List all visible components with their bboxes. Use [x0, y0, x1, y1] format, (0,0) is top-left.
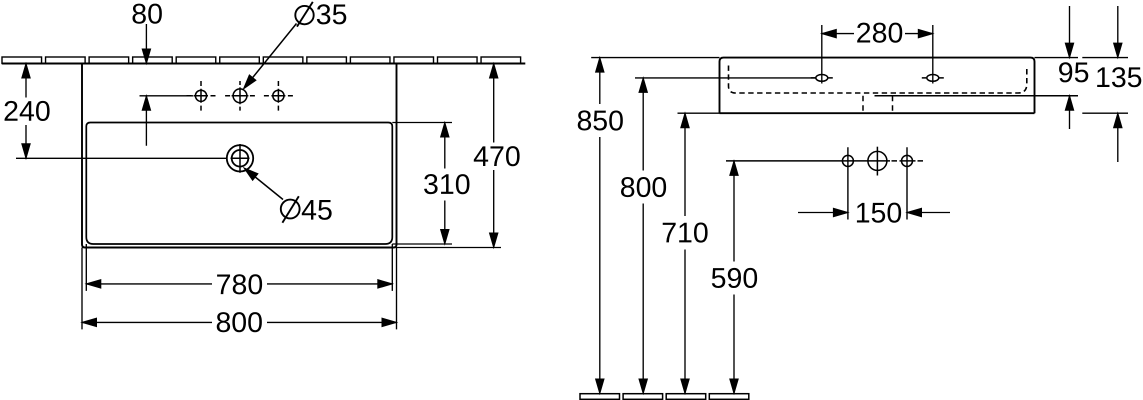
svg-text:470: 470 — [473, 141, 521, 173]
dimension 310 — [392, 123, 452, 245]
dimension 710 — [684, 113, 686, 393]
wall line — [2, 63, 525, 65]
svg-text:240: 240 — [3, 96, 51, 128]
dimension 240 — [16, 64, 227, 159]
leader D35 — [246, 24, 297, 86]
dimension 800 (left view) — [82, 248, 397, 330]
drain hidden lines — [863, 96, 893, 114]
dimension 135 — [1117, 6, 1119, 162]
svg-text:35: 35 — [316, 0, 348, 31]
diameter symbol for 45 — [281, 196, 300, 223]
basin outer rectangle (top view) — [82, 64, 397, 248]
basin bottom edge — [720, 112, 1035, 114]
dimension 780 — [86, 244, 392, 291]
hidden bowl outline (dashed) — [729, 66, 1027, 94]
wall tiles strip — [2, 57, 521, 64]
svg-text:310: 310 — [423, 169, 471, 201]
svg-text:710: 710 — [661, 217, 709, 249]
leader D45 — [247, 170, 283, 199]
inner shelf edge line — [875, 95, 1079, 97]
faucet hole middle D35 — [225, 81, 255, 111]
dimension 850 — [599, 58, 601, 394]
svg-text:135: 135 — [1095, 62, 1143, 94]
top extension line — [591, 57, 1128, 59]
svg-text:150: 150 — [855, 198, 903, 230]
135 right extension — [1082, 112, 1128, 114]
mounting hole left — [811, 75, 833, 82]
svg-text:45: 45 — [301, 195, 333, 227]
svg-text:590: 590 — [711, 263, 759, 295]
svg-text:800: 800 — [620, 172, 668, 204]
left view texts — [3, 0, 521, 339]
faucet holes front view — [842, 147, 912, 176]
dimension 150 — [798, 212, 950, 214]
faucet hole right (small) — [264, 81, 293, 111]
extension lines through small holes — [848, 147, 907, 219]
svg-text:280: 280 — [856, 17, 904, 49]
right view texts — [576, 17, 1142, 295]
dimension 590 — [733, 161, 735, 394]
dimension 80 — [145, 24, 147, 146]
dimension 800 — [642, 78, 644, 394]
faucet hole centre line — [140, 95, 194, 97]
drain hole D45 — [227, 145, 253, 171]
svg-text:95: 95 — [1058, 57, 1090, 89]
faucet hole left (small) — [187, 81, 216, 111]
mounting hole right — [922, 75, 944, 82]
svg-text:780: 780 — [216, 269, 264, 301]
floor tiles — [580, 394, 749, 400]
faucet hole centre line (front view) — [726, 160, 890, 162]
basin inner bowl rounded rectangle — [86, 123, 392, 245]
dimension 280 — [822, 25, 933, 84]
diameter symbol for 35 — [295, 2, 313, 27]
dimension 470 — [397, 64, 502, 248]
mounting hole centre line extension — [635, 77, 816, 79]
svg-text:850: 850 — [576, 105, 624, 137]
svg-text:800: 800 — [215, 307, 263, 339]
basin body — [720, 58, 1035, 114]
dimension 95 — [1069, 6, 1071, 129]
svg-text:80: 80 — [131, 0, 163, 30]
